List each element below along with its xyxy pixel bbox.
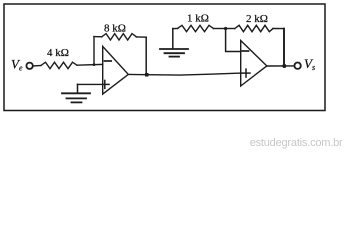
wire node C to R 2k [226,28,235,30]
wire R1k to node C [214,28,226,30]
svg-text:Ve: Ve [11,57,23,73]
terminal Vs [294,62,300,68]
svg-text:1 kΩ: 1 kΩ [187,13,209,25]
node A (feedback tap, U1 inverting) [93,63,96,66]
svg-text:Vs: Vs [304,56,315,72]
wire down to ground 1 [77,84,79,92]
svg-text:8 kΩ: 8 kΩ [104,23,126,35]
op-amp U1 [103,46,129,94]
wire U2 output [267,65,295,67]
node C (R1k/R2k junction) [224,27,227,30]
U2 plus marker [241,69,250,77]
watermark estudegratis.com.br [250,137,343,149]
wire ground 2 stem [172,29,174,49]
U2 minus marker [242,50,248,52]
resistor 2 kOhm (U2 feedback) [235,25,273,31]
wire feedback 2 right vertical [283,29,285,66]
terminal Ve [26,63,32,69]
wire R2k to right corner [273,28,284,30]
node D (U2 output junction) [282,64,286,68]
wire feedback top right [136,36,146,38]
op-amp U2 [241,41,267,87]
ground 2 [160,49,188,57]
node B (U1 output junction) [145,73,149,77]
wire feedback top left [94,36,102,38]
ground 1 [62,93,90,102]
wire ground 2 to R 1k [173,28,178,30]
wire to U1 inverting input [77,63,103,66]
resistor 4 kOhm [41,62,77,68]
resistor 8 kOhm (U1 feedback) [102,34,137,40]
svg-text:2 kΩ: 2 kΩ [246,13,268,25]
wire U1 output to U2 noninverting input [128,73,240,75]
wire Ve to R 4k [33,65,41,68]
wire feedback right vertical [145,37,147,74]
U1 plus marker [103,80,109,88]
svg-text:4 kΩ: 4 kΩ [47,47,69,59]
U1 minus marker [105,60,112,62]
wire node C down to U2 inverting input [226,29,241,52]
wire U1 noninverting input [78,83,103,85]
resistor 1 kOhm [178,25,214,31]
wire feedback left vertical [93,37,95,65]
